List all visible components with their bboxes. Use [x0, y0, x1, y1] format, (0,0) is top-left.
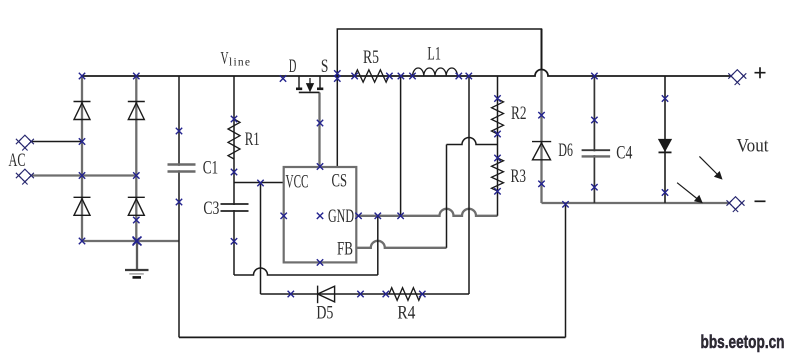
wire: bridge bottom [82, 240, 179, 242]
node R4 left [383, 291, 389, 297]
node R5 right [386, 73, 392, 79]
node GND-L1 tap [397, 213, 403, 219]
node rectifier output at ground junction [133, 237, 142, 246]
node L1 left [409, 73, 415, 79]
node D6 bottom lead [538, 181, 544, 187]
wire: VCC junction drop to D5 [260, 183, 262, 295]
node bridge top-right [133, 73, 139, 79]
wire: D5/R4 row [261, 293, 470, 295]
label minus [755, 200, 766, 202]
wire: LED column [664, 76, 666, 203]
wire: C3 bottom to GND drop, hump over x=260.5 [234, 268, 378, 275]
wire: bridge left column [81, 76, 83, 241]
MOSFET Q1 [296, 76, 323, 92]
svg-text:bbs.eetop.cn: bbs.eetop.cn [701, 332, 785, 352]
wire: AC input 2 [32, 174, 136, 176]
node D6 top lead [538, 112, 544, 118]
svg-text:C3: C3 [203, 199, 219, 219]
node gate pin at IC [317, 163, 323, 169]
wire: C1 column [178, 76, 180, 337]
node bridge top-left [79, 73, 85, 79]
output terminal plus [728, 70, 746, 85]
BLACK WIRES [30, 29, 731, 337]
wire: FB pin wire with hump [356, 241, 446, 248]
node minus rail to return drop [562, 201, 568, 207]
svg-text:L1: L1 [427, 45, 441, 65]
wire: GND to C3-bottom drop [377, 216, 379, 275]
node R5-L1 tap [398, 73, 404, 79]
LED arrow 1 [699, 156, 721, 178]
wire: GND pin wire with humps [356, 209, 497, 216]
node L1-lineB junction [466, 73, 472, 79]
ground stem [136, 241, 138, 269]
node D5 wire left [288, 291, 294, 297]
bridge rectifier diode D_tr [128, 102, 145, 120]
svg-text:C4: C4 [616, 144, 632, 164]
node R2 top [494, 95, 500, 101]
resistor R3 [492, 158, 504, 191]
node R4 right [419, 291, 425, 297]
wire: main top rail V_line to + [82, 70, 731, 76]
wire: output minus to bottom return drop [565, 203, 567, 337]
svg-text:R2: R2 [511, 104, 527, 124]
wire: line A (feedback) R2R3 junction to FB [446, 145, 448, 248]
wire: S junction down to IC top [336, 76, 338, 167]
node bridge right leg below diode [133, 217, 139, 223]
node IC left edge pin [281, 213, 287, 219]
IC U1 box [284, 167, 357, 262]
bridge rectifier diode D_bl [74, 197, 91, 215]
wire: D6 column [540, 29, 542, 203]
node R1 top lead [231, 116, 237, 122]
capacitor C1 [168, 165, 196, 172]
node C4 bottom lead [591, 184, 597, 190]
diode D6 [532, 142, 551, 160]
resistor R4 [389, 288, 422, 301]
svg-text:line: line [229, 57, 250, 69]
node bridge bottom-right pre [133, 238, 139, 244]
wire: bridge right column [135, 76, 137, 241]
node R3 bottom [494, 188, 500, 194]
node GND pin [355, 213, 361, 219]
svg-text:S: S [321, 57, 329, 77]
svg-text:R3: R3 [511, 167, 527, 187]
LED arrow 2 [677, 183, 702, 203]
node S junction upper [334, 70, 340, 76]
node Vline wire near drain [280, 75, 286, 81]
node D5 wire right [357, 291, 363, 297]
svg-text:Vout: Vout [737, 137, 770, 157]
svg-text:VCC: VCC [286, 172, 309, 192]
node C4 top lead [591, 117, 597, 123]
node LED top lead [662, 95, 668, 101]
resistor R2 [492, 99, 504, 134]
node IC bottom pin [317, 259, 323, 265]
wire: VCC pin wire [234, 182, 284, 184]
node C1 top lead [176, 128, 182, 134]
LED D7 [659, 139, 672, 152]
wire: R2/R3 junction wire with hump over line B [447, 138, 498, 145]
net x-marks [79, 70, 668, 297]
ground [125, 270, 149, 277]
node S junction lower [334, 75, 340, 81]
node L1 right [456, 73, 462, 79]
wire: MOSFET gate lead down to IC [318, 93, 320, 168]
node AC2-bridge junction [133, 172, 139, 178]
AC terminal 1 [16, 135, 34, 150]
diode D5 [318, 286, 335, 304]
node AC2 crossing left leg [79, 172, 85, 178]
wire: top rail [337, 29, 541, 76]
capacitor C3 [221, 204, 249, 211]
wire: R1/C3 column, turns right at bottom [233, 76, 235, 275]
node bridge bottom-left [79, 238, 85, 244]
inductor L1 [413, 68, 458, 76]
node R1 bottom lead [231, 169, 237, 175]
svg-text:FB: FB [337, 240, 353, 260]
label Vline [221, 48, 251, 69]
node R2 bottom [494, 131, 500, 137]
svg-text:V: V [221, 48, 229, 68]
node GND-C3 tap [375, 213, 381, 219]
wire: R5-L1 node down to GND [400, 76, 402, 216]
node AC1-bridge junction [79, 138, 85, 144]
svg-text:R1: R1 [245, 130, 260, 150]
svg-text:AC: AC [9, 151, 26, 171]
node C4 top junction [591, 73, 597, 79]
capacitor C4 [582, 150, 611, 156]
bridge rectifier diode D_tl [74, 102, 91, 120]
wire: bottom long return [179, 336, 566, 338]
svg-text:D6: D6 [558, 141, 573, 161]
GRAY WIRES [32, 29, 729, 269]
resistor R5 [355, 70, 390, 82]
node R5 left [351, 73, 357, 79]
svg-text:D5: D5 [316, 303, 333, 323]
node LED bottom lead [662, 189, 668, 195]
wire: AC input 1 [30, 141, 82, 143]
AC terminal 2 [16, 169, 34, 184]
svg-text:CS: CS [332, 171, 348, 191]
node IC internal GND marker [317, 213, 323, 219]
bridge rectifier diode D_br [128, 197, 145, 215]
node C1 bottom lead [176, 199, 182, 205]
svg-text:R4: R4 [397, 303, 415, 323]
svg-text:R5: R5 [363, 48, 379, 68]
wire: line B main to R4 [468, 76, 470, 294]
svg-text:C1: C1 [203, 159, 219, 179]
output terminal minus [727, 197, 745, 212]
svg-text:GND: GND [328, 207, 354, 227]
node VCC wire junction [257, 180, 263, 186]
wire: R2/R3 column [497, 76, 499, 216]
node R3 top [494, 155, 500, 161]
label plus [755, 67, 766, 78]
svg-text:D: D [289, 57, 297, 77]
wire: output minus rail [542, 202, 730, 204]
node C3 bottom lead [231, 238, 237, 244]
wire: C4 column [593, 76, 595, 203]
node gate lead mid [317, 120, 323, 126]
resistor R1 [228, 119, 240, 159]
